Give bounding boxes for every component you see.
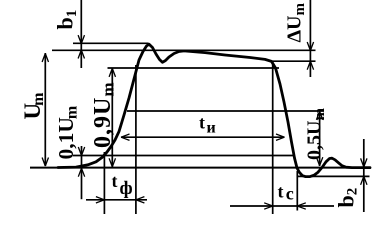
t_f left boundary vertical xyxy=(103,152,105,214)
t_f right boundary vertical xyxy=(135,65,137,214)
baseline (zero level) xyxy=(30,167,370,169)
t_c dimension line with arrows xyxy=(230,203,334,209)
t_c left boundary vertical xyxy=(272,62,274,214)
Um top level line xyxy=(52,49,316,51)
svg-text:tc: tc xyxy=(278,182,294,204)
droop reference line xyxy=(272,60,316,62)
0.1Um level line xyxy=(73,155,294,157)
undershoot level line xyxy=(297,175,370,177)
t_i dimension line with arrows xyxy=(121,134,285,140)
0.9Um level line xyxy=(108,67,280,69)
t_f dimension line with arrows xyxy=(86,197,147,203)
dimension b1 vertical xyxy=(78,0,84,68)
overshoot peak level line xyxy=(73,42,149,44)
t_c right boundary vertical xyxy=(296,171,298,211)
pulse waveform curve xyxy=(58,44,370,176)
dimension b2 vertical xyxy=(361,139,367,212)
dimension dUm vertical xyxy=(307,0,313,77)
dimension 0.5Um vertical xyxy=(316,111,322,166)
dimension 0.1Um vertical xyxy=(78,146,84,199)
dimension Um vertical xyxy=(42,53,48,166)
0.5Um level line xyxy=(127,110,324,112)
dimension 0.9Um vertical xyxy=(109,68,115,167)
